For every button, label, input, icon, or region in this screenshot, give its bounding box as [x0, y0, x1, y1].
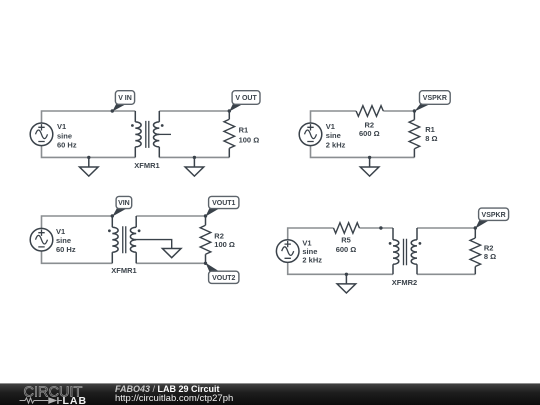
svg-text:VOUT2: VOUT2: [212, 275, 235, 282]
footer url text: [115, 393, 233, 404]
wire top-left circuit: primary bottom: [42, 146, 136, 157]
svg-text:600 Ω: 600 Ω: [336, 245, 357, 254]
transformer XFMR2 primary winding: [393, 228, 399, 274]
node label pointer VSPKR: [414, 104, 430, 112]
wire bottom-left circuit: primary bottom: [42, 251, 113, 263]
wire bottom-right circuit: secondary bottom: [417, 273, 475, 275]
value label R2 100 &#937;: [214, 232, 235, 250]
ground (top-left primary): [80, 157, 99, 176]
ground (bottom-right): [337, 274, 356, 293]
svg-text:8 Ω: 8 Ω: [425, 134, 437, 143]
svg-text:100 Ω: 100 Ω: [214, 240, 235, 249]
wire top-right circuit: R2 to VSPKR node: [383, 110, 414, 112]
svg-text:sine: sine: [57, 131, 72, 140]
resistor R5 600 Ohm: [334, 223, 360, 234]
value label R5 600 &#937;: [336, 236, 357, 255]
junction node VSPKR (bottom-right): [474, 226, 477, 229]
svg-text:R1: R1: [425, 125, 435, 134]
wire bottom-left circuit: secondary top: [136, 215, 205, 217]
wire bottom-right circuit: R5 to transformer primary: [359, 227, 393, 229]
voltage source V1 (top-left) sine 60 Hz: [30, 123, 53, 146]
svg-text:sine: sine: [326, 131, 341, 140]
resistor R2 (top-right) 600 Ohm: [356, 106, 383, 117]
value label V1 V1 sine 2 kHz: [302, 239, 322, 265]
value label R2 600 &#937;: [359, 121, 380, 138]
wire top-left circuit: secondary bottom: [159, 156, 229, 158]
node label pointer VSPKR: [475, 220, 489, 229]
svg-text:600 Ω: 600 Ω: [359, 129, 380, 138]
junction ground node (top-left secondary): [193, 156, 196, 159]
wire bottom-left circuit: source to transformer primary top: [42, 216, 113, 228]
junction node V OUT: [228, 109, 231, 112]
node label V OUT: [232, 91, 260, 105]
wire bottom-left circuit: secondary bottom: [136, 262, 205, 264]
value label R2 8 &#937;: [484, 243, 496, 261]
wire center tap to ground (bottom-left): [135, 240, 172, 249]
transformer XFMR1 secondary winding: [153, 111, 159, 157]
voltage source V1 (bottom-right) sine 2 kHz: [276, 240, 299, 263]
transformer XFMR2 secondary phase dot: [419, 242, 422, 245]
node label VSPKR: [420, 91, 451, 105]
transformer XFMR1 primary phase dot: [131, 124, 134, 127]
wire bottom-right circuit: secondary top to VSPKR node: [417, 227, 475, 229]
transformer XFMR1 center tap stub: [159, 133, 172, 135]
node label VSPKR: [479, 208, 509, 220]
svg-text:V OUT: V OUT: [235, 95, 257, 102]
CircuitLab logo: [0, 384, 110, 405]
transformer XFMR1 primary winding: [135, 111, 141, 157]
value label V1 V1 sine 60 Hz: [56, 227, 76, 254]
svg-text:R1: R1: [239, 126, 249, 135]
junction node VSPKR (top-right): [413, 109, 416, 112]
node label pointer V OUT: [229, 104, 243, 112]
junction node VIN (bottom-left): [111, 214, 114, 217]
node label pointer VIN: [112, 208, 127, 216]
resistor R1 (top-right) 8 Ohm: [413, 111, 415, 157]
junction ground node (top-left primary): [87, 156, 90, 159]
svg-text:100 Ω: 100 Ω: [239, 135, 260, 144]
node label pointer V IN: [112, 104, 126, 112]
node label V IN: [115, 91, 134, 105]
svg-text:8 Ω: 8 Ω: [484, 252, 496, 261]
svg-text:60 Hz: 60 Hz: [57, 140, 77, 149]
node label VOUT2: [209, 271, 239, 283]
junction node VOUT2: [204, 262, 207, 265]
junction ground node (bottom-right): [345, 273, 348, 276]
value label V1 V1 sine 2 kHz: [326, 122, 346, 149]
svg-text:R2: R2: [484, 243, 494, 252]
node label pointer VOUT2: [206, 263, 220, 272]
wire top-left circuit: secondary top: [159, 110, 229, 112]
junction ground node (top-right): [368, 156, 371, 159]
svg-text:R2: R2: [214, 232, 224, 241]
transformer XFMR1 secondary phase dot: [161, 124, 164, 127]
svg-text:V1: V1: [57, 122, 66, 131]
ground (top-left secondary): [185, 157, 204, 176]
svg-text:V1: V1: [56, 227, 65, 236]
svg-text:LAB: LAB: [63, 395, 88, 405]
svg-text:VOUT1: VOUT1: [212, 200, 235, 207]
svg-text:2 kHz: 2 kHz: [302, 256, 322, 265]
transformer XFMR2 secondary winding: [411, 228, 417, 274]
svg-text:VSPKR: VSPKR: [423, 95, 447, 102]
junction node V IN: [111, 109, 114, 112]
ground (top-right): [360, 157, 379, 176]
transformer XFMR1 secondary phase dot: [138, 229, 141, 232]
transformer XFMR2 primary phase dot: [389, 242, 392, 245]
junction node VOUT1: [204, 214, 207, 217]
svg-text:sine: sine: [56, 236, 71, 245]
value label R1 8 &#937;: [425, 125, 437, 143]
transformer XFMR1 secondary winding: [130, 216, 136, 263]
voltage source V1 (top-right) sine 2 kHz: [299, 123, 322, 146]
value label V1 V1 sine 60 Hz: [57, 122, 77, 149]
transformer XFMR2 core: [404, 239, 407, 265]
svg-text:XFMR2: XFMR2: [392, 278, 417, 287]
svg-text:XFMR1: XFMR1: [111, 266, 136, 275]
wire bottom-right circuit: source to R5: [288, 228, 334, 240]
wire bottom-right circuit: bottom: [288, 262, 393, 274]
svg-text:2 kHz: 2 kHz: [326, 140, 346, 149]
svg-text:XFMR1: XFMR1: [134, 161, 159, 170]
footer title text: [115, 384, 220, 394]
resistor R2 (bottom-right) 8 Ohm: [474, 228, 476, 274]
transformer XFMR1 core: [146, 121, 149, 148]
wire top-right circuit: bottom: [311, 146, 415, 157]
svg-text:VSPKR: VSPKR: [482, 212, 506, 219]
svg-text:R5: R5: [341, 236, 351, 245]
footer bar: [0, 383, 540, 405]
svg-text:V IN: V IN: [118, 95, 132, 102]
wire top-left circuit: source to transformer primary top: [42, 111, 136, 123]
transformer XFMR1 primary phase dot: [108, 229, 111, 232]
voltage source V1 (bottom-left) sine 60 Hz: [30, 228, 53, 251]
svg-text:60 Hz: 60 Hz: [56, 245, 76, 254]
junction node after R5: [379, 226, 382, 229]
value label R1 100 &#937;: [239, 126, 260, 145]
transformer XFMR1 primary winding: [112, 216, 118, 263]
wire top-right circuit: source to R2: [311, 111, 357, 123]
transformer XFMR1 core: [123, 226, 126, 253]
svg-text:VIN: VIN: [118, 200, 130, 207]
node label VIN: [116, 196, 132, 208]
node label pointer VOUT1: [206, 208, 220, 216]
node label VOUT1: [209, 196, 239, 208]
ground (center tap, bottom-left): [162, 249, 181, 258]
svg-text:V1: V1: [326, 122, 335, 131]
resistor R1 (top-left) 100 Ohm: [228, 111, 230, 157]
resistor R2 (bottom-left) 100 Ohm: [205, 216, 207, 263]
